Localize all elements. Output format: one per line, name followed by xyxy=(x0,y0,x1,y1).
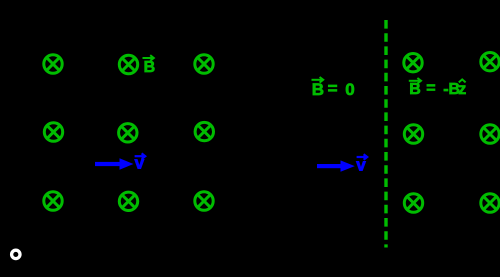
field symbol left row3 col1 xyxy=(44,192,62,210)
field symbol left row2 col2 xyxy=(119,124,137,142)
field symbol left row2 col3 xyxy=(195,122,213,140)
svg-text:z: z xyxy=(458,81,466,98)
field symbol left row1 col3 xyxy=(195,55,213,73)
vector arrow over B (middle) xyxy=(312,77,324,83)
svg-text:=: = xyxy=(328,79,338,98)
field symbol left row2 col1 xyxy=(44,123,62,141)
vector arrow over label B xyxy=(143,55,154,61)
svg-text:=: = xyxy=(426,80,435,97)
field symbol left row3 col3 xyxy=(195,192,213,210)
field symbol left row1 col2 xyxy=(119,55,137,73)
dashed boundary line xyxy=(384,20,387,248)
velocity arrow left xyxy=(95,158,134,169)
origin dot (out-of-page marker, bottom left) xyxy=(12,250,20,258)
field symbol right row3 col2 xyxy=(481,194,499,212)
vector arrow over label v left xyxy=(135,153,146,159)
vector arrow over B (right) xyxy=(409,78,421,84)
field symbol right row2 col2 xyxy=(481,125,499,143)
velocity arrow middle xyxy=(317,160,355,171)
svg-text:0: 0 xyxy=(345,80,354,99)
svg-text:B: B xyxy=(144,59,156,76)
vector arrow over label v middle xyxy=(357,154,368,160)
field symbol left row3 col2 xyxy=(119,192,137,210)
field symbol right row1 col1 xyxy=(404,54,422,72)
field symbol left row1 col1 xyxy=(44,55,62,73)
hat over z (right) xyxy=(459,79,466,82)
field symbol right row2 col1 xyxy=(404,125,422,143)
svg-text:B: B xyxy=(312,80,324,99)
field symbol right row3 col1 xyxy=(404,194,422,212)
field symbol right row1 col2 xyxy=(481,53,499,71)
